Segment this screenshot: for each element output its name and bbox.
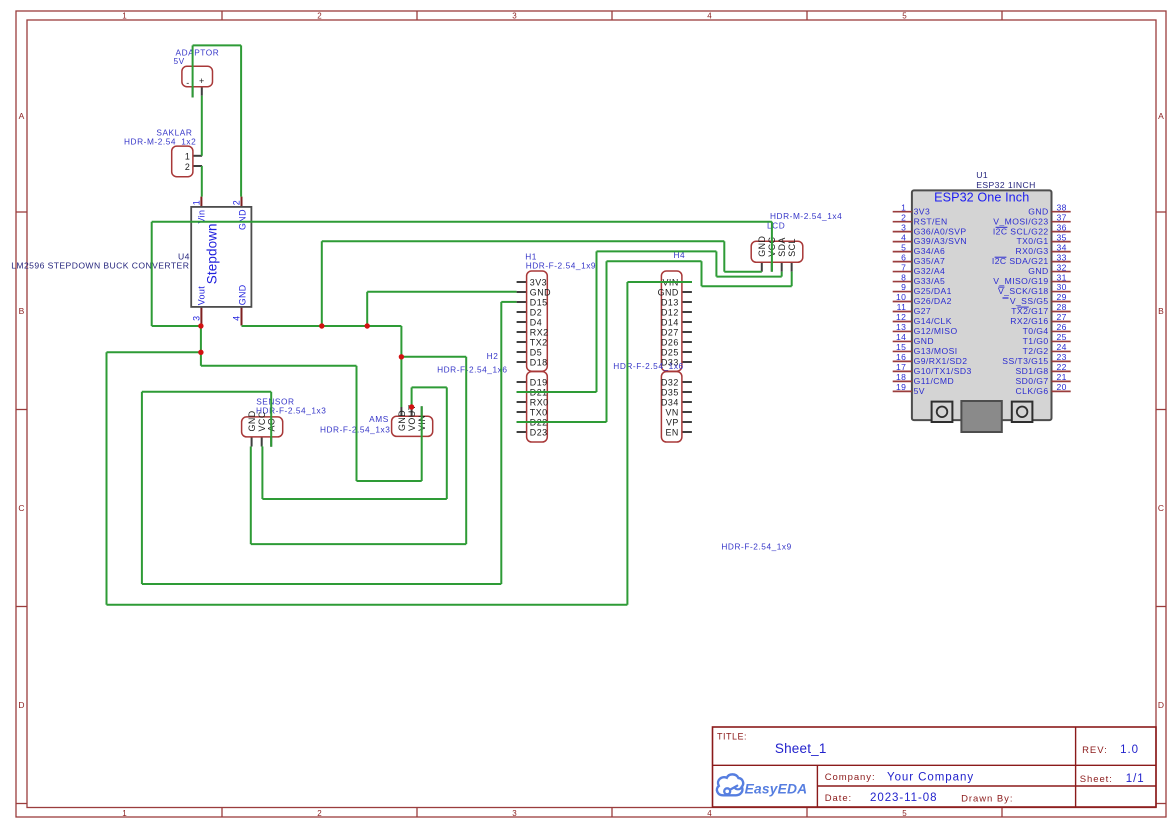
- svg-text:D: D: [1158, 700, 1164, 710]
- EasyEDA logo: [717, 774, 807, 796]
- SAKLAR body: [172, 146, 193, 177]
- wire net AMS-VOUT seg1: [411, 387, 413, 407]
- AMS pin VOUT stub: [411, 407, 413, 416]
- svg-text:T1/G0: T1/G0: [1023, 336, 1049, 346]
- svg-text:Sheet_1: Sheet_1: [775, 741, 827, 756]
- H1 body: [527, 271, 548, 371]
- wire net D22-SCL seg2: [606, 261, 608, 422]
- svg-text:2: 2: [317, 809, 322, 818]
- frame column ticks top: [222, 11, 1002, 20]
- svg-text:G36/A0/SVP: G36/A0/SVP: [914, 226, 967, 236]
- svg-text:G34/A6: G34/A6: [914, 246, 946, 256]
- junction at 200.9,352.3: [198, 350, 203, 355]
- svg-text:TITLE:: TITLE:: [717, 731, 747, 741]
- wire net GND seg5: [251, 543, 466, 545]
- svg-text:HDR-M-2.54_1x2: HDR-M-2.54_1x2: [124, 137, 196, 147]
- U1 usb connector tab: [961, 401, 1001, 432]
- H4 pin D12 stub: [682, 311, 692, 313]
- wire net VOUT seg3: [151, 222, 153, 326]
- svg-text:TX0: TX0: [530, 407, 548, 417]
- H2 pin D22 stub: [517, 421, 527, 423]
- svg-text:D19: D19: [530, 377, 548, 387]
- H4 pin D25 stub: [682, 351, 692, 353]
- U1 pin 30 overline mark (V): [998, 286, 1004, 288]
- U1 pin 31 (V_MISO/G19): [993, 272, 1070, 286]
- U1 pin 33 (I2C SDA/G21): [992, 252, 1071, 266]
- U1 pin 5 (G34/A6): [893, 242, 946, 256]
- H4 pin D27 stub: [682, 331, 692, 333]
- svg-text:CLK/G6: CLK/G6: [1016, 386, 1049, 396]
- U1 pin 35 (TX0/G1): [1016, 232, 1070, 246]
- svg-text:1: 1: [901, 202, 906, 212]
- wire net VIN-5V seg3: [192, 45, 194, 97]
- H1 pin D18 stub: [517, 361, 527, 363]
- svg-text:SCL: SCL: [787, 238, 797, 257]
- wire net D22-SCL seg5: [702, 285, 792, 287]
- svg-text:12: 12: [896, 312, 906, 322]
- U1 pin 29 underscore mark: [1003, 297, 1009, 299]
- LCD pin GND stub: [761, 262, 763, 271]
- H2 pin RX0 stub: [517, 401, 527, 403]
- title block outline: [713, 727, 1157, 807]
- U1 pin 9 (G25/DA1): [893, 282, 952, 296]
- wire net AMS-VOUT seg2: [412, 386, 447, 388]
- svg-text:Sheet:: Sheet:: [1080, 774, 1113, 785]
- wire net D21-SDA seg5: [716, 276, 781, 278]
- H4 pin D26 stub: [682, 341, 692, 343]
- ADAPTOR pin + stub: [201, 87, 203, 96]
- svg-text:5: 5: [902, 809, 907, 818]
- svg-text:4: 4: [707, 809, 712, 818]
- svg-text:D2: D2: [530, 307, 542, 317]
- wire net GND seg4: [465, 357, 467, 544]
- H4 lower pin D34 stub: [682, 401, 692, 403]
- U1 pin 10 (G26/DA2): [893, 292, 952, 306]
- U1 pin 15 (G13/MOSI): [893, 342, 958, 356]
- svg-text:G26/DA2: G26/DA2: [914, 296, 952, 306]
- title block rev column divider: [1075, 727, 1077, 807]
- svg-text:25: 25: [1057, 332, 1067, 342]
- title block row divider 2: [817, 785, 1156, 787]
- svg-text:D35: D35: [661, 387, 679, 397]
- LCD pin VCC stub: [771, 262, 773, 271]
- H4 upper body: [661, 271, 682, 371]
- svg-text:SDA: SDA: [777, 237, 787, 257]
- frame column numbers bottom: [122, 809, 907, 818]
- wire net VOUT seg5: [200, 326, 202, 366]
- H4 lower pin VN stub: [682, 411, 692, 413]
- wire net D21-SDA seg1: [517, 391, 597, 393]
- title block row divider 1: [713, 764, 1157, 766]
- AMS pin GND stub: [400, 407, 402, 416]
- svg-text:VN: VN: [665, 407, 678, 417]
- wire net VIN-5V seg4: [201, 96, 203, 156]
- svg-text:ESP32 1INCH: ESP32 1INCH: [976, 180, 1036, 190]
- U1 pin 19 (5V): [893, 382, 925, 396]
- U1 pin 4 (G39/A3/SVN): [893, 232, 967, 246]
- wire net D15-AO seg1: [501, 301, 516, 303]
- wire net VOUT seg2: [771, 222, 773, 272]
- H1 pin D2 stub: [517, 311, 527, 313]
- svg-text:+: +: [199, 76, 205, 86]
- U1 pin 22 (SD1/G8): [1016, 362, 1071, 376]
- wire net GND seg11: [366, 292, 368, 326]
- svg-text:35: 35: [1057, 232, 1067, 242]
- svg-text:D4: D4: [530, 317, 542, 327]
- SENSOR pin GND stub: [251, 437, 253, 447]
- svg-text:TX0/G1: TX0/G1: [1016, 236, 1048, 246]
- wire net D22-SCL seg1: [517, 421, 607, 423]
- svg-text:34: 34: [1057, 242, 1067, 252]
- wire net D15-AO seg2: [500, 302, 502, 584]
- H4 lower pin D32 stub: [682, 381, 692, 383]
- svg-text:D27: D27: [661, 327, 679, 337]
- svg-text:36: 36: [1057, 222, 1067, 232]
- wire net VOUT seg14: [421, 406, 423, 481]
- svg-text:2: 2: [317, 11, 322, 20]
- svg-text:V_SCK/G18: V_SCK/G18: [998, 286, 1049, 296]
- svg-text:17: 17: [896, 362, 906, 372]
- svg-text:G9/RX1/SD2: G9/RX1/SD2: [914, 356, 968, 366]
- U1 pin 34 (RX0/G3): [1016, 242, 1071, 256]
- svg-text:20: 20: [1057, 382, 1067, 392]
- svg-text:V_MOSI/G23: V_MOSI/G23: [993, 216, 1048, 226]
- wire net AMS-VOUT seg3: [446, 387, 448, 499]
- U1 pin 36 overline mark (2C): [996, 226, 1008, 228]
- svg-text:6: 6: [901, 252, 906, 262]
- U1 pin 33 overline mark (2C): [995, 256, 1007, 258]
- svg-text:G11/CMD: G11/CMD: [914, 376, 955, 386]
- wire net VOUT seg8: [107, 604, 628, 606]
- svg-text:GND: GND: [247, 410, 257, 431]
- U1 mounting hole right: [1012, 402, 1033, 422]
- svg-text:G12/MISO: G12/MISO: [914, 326, 958, 336]
- U1 pin 28 overline mark (X2): [1017, 306, 1028, 308]
- wire net VOUT seg13: [357, 480, 422, 482]
- svg-text:GND: GND: [914, 336, 934, 346]
- svg-text:HDR-F-2.54_1x3: HDR-F-2.54_1x3: [320, 424, 390, 434]
- U1 pin 24 (T2/G2): [1023, 342, 1071, 356]
- svg-text:AMS: AMS: [369, 414, 389, 424]
- svg-text:H2: H2: [487, 351, 499, 361]
- U1 pin 14 (GND): [893, 332, 934, 346]
- U1 pin 37 (V_MOSI/G23): [993, 212, 1070, 226]
- svg-text:1: 1: [185, 152, 190, 162]
- H4 lower pin VP stub: [682, 421, 692, 423]
- svg-text:A: A: [1158, 111, 1164, 121]
- svg-text:21: 21: [1057, 372, 1067, 382]
- svg-text:29: 29: [1057, 292, 1067, 302]
- wire net AMS-VOUT seg5: [261, 447, 263, 500]
- svg-text:8: 8: [901, 272, 906, 282]
- U1 pin 29 (V_SS/G5): [1010, 292, 1071, 306]
- H2 pin D19 stub: [517, 381, 527, 383]
- wire net AMS-VOUT seg6: [261, 446, 264, 448]
- H1 pin D5 stub: [517, 351, 527, 353]
- svg-text:28: 28: [1057, 302, 1067, 312]
- svg-text:RX2: RX2: [530, 327, 549, 337]
- SENSOR body: [242, 417, 283, 437]
- frame row letters left: [18, 111, 24, 710]
- svg-text:4: 4: [232, 316, 242, 321]
- svg-text:C: C: [18, 503, 24, 513]
- wire net VOUT seg4: [152, 325, 201, 327]
- svg-text:HDR-M-2.54_1x4: HDR-M-2.54_1x4: [770, 211, 842, 221]
- LCD body: [751, 241, 803, 262]
- frame column numbers top: [122, 11, 907, 20]
- H4 pin GND stub: [682, 291, 692, 293]
- svg-text:B: B: [19, 306, 25, 316]
- svg-text:GND: GND: [658, 287, 679, 297]
- H1 pin GND stub: [517, 291, 527, 293]
- U1 pin 32 (GND): [1028, 262, 1070, 276]
- SAKLAR pin 1 stub: [193, 155, 202, 157]
- svg-text:19: 19: [896, 382, 906, 392]
- svg-text:GND: GND: [237, 284, 247, 305]
- svg-text:10: 10: [896, 292, 906, 302]
- svg-text:Drawn By:: Drawn By:: [961, 794, 1013, 805]
- svg-text:RX0: RX0: [530, 397, 549, 407]
- svg-text:24: 24: [1057, 342, 1067, 352]
- U1 mounting hole left: [932, 402, 953, 422]
- U1 pin 26 (T0/G4): [1023, 322, 1071, 336]
- U1 pin 16 (G9/RX1/SD2): [893, 352, 968, 366]
- svg-text:31: 31: [1057, 272, 1067, 282]
- svg-text:Company:: Company:: [825, 772, 876, 783]
- svg-text:V_SS/G5: V_SS/G5: [1010, 296, 1049, 306]
- wire net D22-SCL seg3: [607, 260, 702, 262]
- wire net VOUT seg6: [107, 351, 201, 353]
- svg-text:32: 32: [1057, 262, 1067, 272]
- svg-text:G39/A3/SVN: G39/A3/SVN: [914, 236, 967, 246]
- svg-text:16: 16: [896, 352, 906, 362]
- U4 pin 2 stub: [241, 197, 243, 207]
- H4 pin D33 stub: [682, 361, 692, 363]
- U1 pin 17 (G10/TX1/SD3): [893, 362, 972, 376]
- H2 pin TX0 stub: [517, 411, 527, 413]
- svg-text:3V3: 3V3: [914, 206, 931, 216]
- svg-text:2: 2: [901, 212, 906, 222]
- wire net VOUT seg10: [627, 281, 692, 283]
- svg-text:G32/A4: G32/A4: [914, 266, 946, 276]
- wire net VOUT seg12: [356, 366, 358, 481]
- H4 pin VIN stub: [682, 281, 692, 283]
- wire net AMS-VOUT seg4: [262, 498, 446, 500]
- svg-text:3: 3: [512, 11, 517, 20]
- frame column ticks bottom: [222, 808, 1002, 818]
- svg-text:7: 7: [901, 262, 906, 272]
- svg-text:HDR-F-2.54_1x9: HDR-F-2.54_1x9: [526, 261, 596, 271]
- wire net GND seg10: [724, 271, 762, 273]
- wire net VOUT seg1: [152, 221, 772, 223]
- U1 pin 13 (G12/MISO): [893, 322, 958, 336]
- svg-text:-: -: [186, 78, 189, 88]
- H1 pin 3V3 stub: [517, 281, 527, 283]
- svg-text:1: 1: [191, 200, 201, 205]
- svg-text:2: 2: [232, 200, 242, 205]
- frame row letters right: [1158, 111, 1164, 710]
- ADAPTOR pin - stub: [192, 87, 194, 98]
- svg-text:Vout: Vout: [197, 286, 207, 306]
- H2 pin D21 stub: [517, 391, 527, 393]
- frame row ticks left: [16, 212, 27, 804]
- wire net D15-AO seg3: [142, 583, 501, 585]
- svg-text:G10/TX1/SD3: G10/TX1/SD3: [914, 366, 972, 376]
- H4 lower body: [661, 372, 682, 442]
- svg-text:LM2596 STEPDOWN BUCK CONVERTER: LM2596 STEPDOWN BUCK CONVERTER: [11, 260, 189, 270]
- svg-text:C: C: [1158, 503, 1164, 513]
- svg-text:13: 13: [896, 322, 906, 332]
- svg-text:3: 3: [191, 316, 201, 321]
- svg-text:D14: D14: [661, 317, 679, 327]
- buck converter U4 pin 1 stub: [200, 197, 202, 207]
- H1 pin D4 stub: [517, 321, 527, 323]
- wire net VOUT seg11: [201, 365, 357, 367]
- svg-text:GND: GND: [1028, 206, 1048, 216]
- wire net D15-AO seg4: [141, 392, 143, 584]
- svg-text:3V3: 3V3: [530, 277, 547, 287]
- svg-text:D32: D32: [661, 377, 679, 387]
- H2 pin D23 stub: [517, 431, 527, 433]
- svg-text:G33/A5: G33/A5: [914, 276, 946, 286]
- svg-text:D5: D5: [530, 347, 542, 357]
- svg-text:1: 1: [122, 11, 127, 20]
- wire net D22-SCL seg6: [791, 272, 793, 287]
- LCD pin SCL stub: [791, 262, 793, 271]
- U4 pin 3 stub: [200, 307, 202, 326]
- wire net GND seg12: [367, 291, 516, 293]
- svg-text:B: B: [1158, 306, 1164, 316]
- H1 pin TX2 stub: [517, 341, 527, 343]
- svg-text:D: D: [18, 700, 24, 710]
- wire net VIN-5V seg5: [201, 166, 203, 197]
- wire net D21-SDA seg6: [781, 272, 783, 277]
- wire net D15-AO seg6: [270, 392, 272, 447]
- svg-text:D18: D18: [530, 357, 548, 367]
- svg-text:1/1: 1/1: [1126, 773, 1145, 785]
- svg-text:14: 14: [896, 332, 906, 342]
- svg-text:2: 2: [185, 162, 190, 172]
- svg-text:SD0/G7: SD0/G7: [1016, 376, 1049, 386]
- svg-text:A: A: [19, 111, 25, 121]
- svg-text:G27: G27: [914, 306, 932, 316]
- svg-text:RX0/G3: RX0/G3: [1016, 246, 1049, 256]
- svg-text:15: 15: [896, 342, 906, 352]
- AMS body: [392, 416, 433, 436]
- svg-text:TX2/G17: TX2/G17: [1011, 306, 1048, 316]
- svg-text:D26: D26: [661, 337, 679, 347]
- wire net GND seg8: [322, 240, 725, 242]
- svg-text:5V: 5V: [174, 56, 185, 66]
- svg-text:D23: D23: [530, 427, 548, 437]
- svg-text:HDR-F-2.54_1x9: HDR-F-2.54_1x9: [721, 542, 791, 552]
- svg-text:G25/DA1: G25/DA1: [914, 286, 952, 296]
- svg-text:1: 1: [122, 809, 127, 818]
- svg-text:5: 5: [901, 242, 906, 252]
- H4 lower pin EN stub: [682, 431, 692, 433]
- svg-text:REV:: REV:: [1082, 745, 1108, 756]
- ADAPTOR polarity marks: [186, 76, 204, 88]
- svg-text:V_MISO/G19: V_MISO/G19: [993, 276, 1048, 286]
- svg-text:5V: 5V: [914, 386, 925, 396]
- U4 body: [191, 207, 251, 307]
- wire net D22-SCL seg4: [701, 261, 703, 286]
- junction at 321.8,326: [319, 323, 324, 328]
- svg-text:VCC: VCC: [257, 411, 267, 431]
- svg-text:9: 9: [901, 282, 906, 292]
- U1 pin 20 (CLK/G6): [1016, 382, 1071, 396]
- svg-text:SS/T3/G15: SS/T3/G15: [1002, 356, 1048, 366]
- junction at 367.2,326: [365, 323, 370, 328]
- U1 pin 36 (I2C SCL/G22): [993, 222, 1071, 236]
- title block logo cell divider: [816, 765, 818, 807]
- LCD pin SDA stub: [781, 262, 783, 271]
- SENSOR pin AO stub: [270, 437, 272, 447]
- svg-text:GND: GND: [530, 287, 551, 297]
- svg-text:27: 27: [1057, 312, 1067, 322]
- svg-text:GND: GND: [237, 209, 247, 230]
- svg-text:TX2: TX2: [530, 337, 548, 347]
- U1 pin 23 (SS/T3/G15): [1002, 352, 1070, 366]
- H4 pin D13 stub: [682, 301, 692, 303]
- U1 pin 27 (RX2/G16): [1010, 312, 1070, 326]
- svg-text:Your Company: Your Company: [887, 772, 974, 784]
- wire net GND seg9: [723, 241, 725, 271]
- U4 pin 4 stub: [241, 307, 243, 326]
- wire net VIN-5V seg1: [193, 44, 242, 46]
- svg-text:D15: D15: [530, 297, 548, 307]
- svg-text:3: 3: [901, 222, 906, 232]
- wire net GND seg3: [401, 356, 466, 358]
- svg-text:38: 38: [1057, 202, 1067, 212]
- svg-text:HDR-F-2.54_1x6: HDR-F-2.54_1x6: [613, 361, 683, 371]
- svg-text:T2/G2: T2/G2: [1023, 346, 1049, 356]
- svg-text:23: 23: [1057, 352, 1067, 362]
- H1 pin D15 stub: [517, 301, 527, 303]
- wire net D21-SDA seg3: [597, 250, 717, 252]
- svg-text:D13: D13: [661, 297, 679, 307]
- svg-text:2023-11-08: 2023-11-08: [870, 792, 937, 804]
- wire net VIN-5V seg2: [240, 45, 242, 196]
- svg-text:3: 3: [512, 809, 517, 818]
- U1 pin 7 (G32/A4): [893, 262, 946, 276]
- svg-text:GND: GND: [397, 410, 407, 431]
- wire net GND seg2: [400, 326, 402, 407]
- U1 pin 38 (GND): [1028, 202, 1070, 216]
- U1 pin 1 (3V3): [893, 202, 930, 216]
- H1 pin RX2 stub: [517, 331, 527, 333]
- U1 body: [912, 190, 1052, 420]
- svg-text:D34: D34: [661, 397, 679, 407]
- svg-text:G13/MOSI: G13/MOSI: [914, 346, 958, 356]
- U1 pin 28 (TX2/G17): [1011, 302, 1070, 316]
- svg-text:EasyEDA: EasyEDA: [745, 782, 808, 797]
- svg-text:G35/A7: G35/A7: [914, 256, 946, 266]
- wire net D21-SDA seg2: [596, 251, 598, 392]
- wire net GND seg6: [250, 447, 252, 545]
- svg-text:18: 18: [896, 372, 906, 382]
- svg-text:37: 37: [1057, 212, 1067, 222]
- svg-text:SD1/G8: SD1/G8: [1016, 366, 1049, 376]
- H4 pin D14 stub: [682, 321, 692, 323]
- U1 pin 11 (G27): [893, 302, 931, 316]
- wire net VOUT seg7: [106, 352, 108, 605]
- U1 pin 12 (G14/CLK): [893, 312, 952, 326]
- U1 pin 8 (G33/A5): [893, 272, 946, 286]
- H4 lower pin D35 stub: [682, 391, 692, 393]
- svg-text:RX2/G16: RX2/G16: [1010, 316, 1048, 326]
- svg-text:5: 5: [902, 11, 907, 20]
